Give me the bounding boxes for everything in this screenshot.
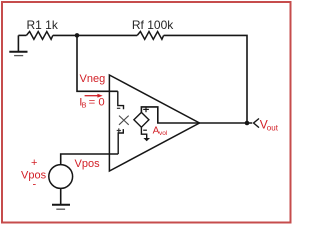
- plus label at dependent source: [143, 107, 149, 113]
- svg-text:+: +: [31, 157, 37, 169]
- wire op-amp output: [200, 122, 253, 124]
- wire node A down to inverting input: [77, 35, 118, 91]
- svg-text:vol: vol: [159, 130, 168, 137]
- label Vout: [260, 117, 279, 132]
- resistor Rf: [132, 18, 174, 39]
- wire Vpos source to ground: [60, 188, 62, 204]
- svg-text:Vpos: Vpos: [75, 158, 101, 170]
- label Avol: [153, 125, 168, 137]
- svg-text:-: -: [33, 178, 37, 190]
- minus label at dependent source: [143, 129, 147, 131]
- output terminal marker: [254, 119, 259, 128]
- svg-text:Rf 100k: Rf 100k: [132, 18, 174, 32]
- node A (inverting input junction): [75, 33, 80, 38]
- wire GND1 to R1: [18, 34, 26, 36]
- svg-text:= 0: = 0: [86, 97, 104, 109]
- open-circuit X marker: [119, 116, 129, 125]
- node Vout junction: [245, 121, 250, 126]
- label Vpos source (left, with polarity): [21, 157, 47, 190]
- svg-text:R1 1k: R1 1k: [27, 18, 59, 32]
- dependent source diamond Avol: [134, 112, 149, 127]
- wire R1 to Rf: [53, 34, 137, 36]
- ground GND2 (bottom): [52, 205, 70, 210]
- source Vpos circle: [49, 165, 73, 189]
- ground GND1 (top-left): [9, 35, 27, 55]
- annotation IB = 0 text: [79, 97, 104, 110]
- svg-text:out: out: [267, 124, 279, 133]
- minus label at inverting terminal: [117, 107, 120, 109]
- op-amp U1 triangle: [109, 75, 199, 171]
- inverting input open terminal hook: [118, 91, 124, 109]
- non-inverting input open terminal hook: [118, 129, 123, 154]
- internal reference ground arrow: [141, 127, 150, 141]
- annotation IB = 0 arrow: [85, 94, 103, 98]
- wire dependent source to op-amp output apex: [141, 107, 199, 123]
- wire Rf to output node (feedback): [164, 35, 247, 123]
- wire Vpos source to non-inverting input: [61, 154, 118, 165]
- svg-text:Vneg: Vneg: [80, 73, 106, 85]
- plus label at non-inverting terminal: [117, 128, 121, 132]
- resistor R1: [26, 18, 58, 39]
